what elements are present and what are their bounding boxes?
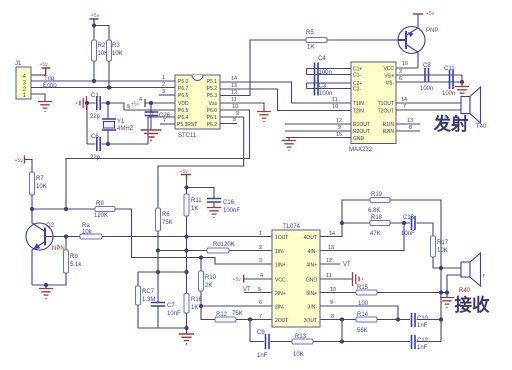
- svg-text:P6.0: P6.0: [207, 108, 218, 114]
- resistor R9: [94, 201, 115, 219]
- svg-text:1nF: 1nF: [257, 353, 268, 359]
- wire R5 to base: [327, 39, 398, 41]
- svg-text:16: 16: [402, 61, 408, 67]
- svg-text:P5.1: P5.1: [207, 79, 218, 85]
- wire pin8 to R14: [320, 319, 356, 321]
- junction Trig/R2: [92, 79, 96, 83]
- svg-text:1IN+: 1IN+: [275, 263, 286, 269]
- junction pin13/C13 wire: [402, 221, 406, 225]
- svg-text:10: 10: [332, 104, 338, 110]
- svg-text:C4: C4: [318, 56, 326, 62]
- svg-text:R3: R3: [112, 43, 120, 49]
- svg-text:8: 8: [409, 125, 412, 131]
- wire C12 net: [342, 341, 410, 343]
- wire TL074 pin2 net: [158, 250, 272, 252]
- power +5v (VDD): [131, 99, 145, 108]
- wire R12 right to pin7: [236, 319, 272, 321]
- junction R7/Q2 collector: [30, 207, 34, 211]
- svg-text:9: 9: [338, 125, 341, 131]
- svg-text:47K: 47K: [370, 231, 381, 237]
- junction pin9/C10 wire: [396, 317, 400, 321]
- resistor R7: [30, 172, 47, 195]
- junction R13 wire/C12 wire: [340, 339, 344, 343]
- svg-text:Q2: Q2: [46, 223, 55, 229]
- wire R13 right riser to pin8: [313, 320, 342, 342]
- svg-text:6.8K: 6.8K: [368, 208, 380, 214]
- svg-text:10K: 10K: [112, 51, 123, 57]
- svg-text:MAX232: MAX232: [349, 147, 373, 153]
- wire emitter/Rb to ground: [32, 273, 66, 288]
- svg-text:9: 9: [330, 300, 333, 306]
- svg-text:3: 3: [162, 89, 165, 95]
- mcu U1 STC11: [175, 75, 220, 139]
- junction bus/pin1 wire: [184, 234, 188, 238]
- resistor R10: [199, 258, 217, 292]
- svg-text:Echo: Echo: [43, 83, 57, 89]
- wire pin3 stub: [159, 94, 175, 96]
- svg-text:22p: 22p: [90, 114, 101, 120]
- resistor R17: [431, 236, 449, 257]
- svg-text:10K: 10K: [293, 352, 304, 358]
- resistor R14: [356, 312, 377, 334]
- svg-text:4: 4: [139, 97, 142, 103]
- svg-text:100n: 100n: [319, 91, 332, 97]
- svg-text:+5v: +5v: [426, 11, 435, 17]
- capacitor C9: [257, 330, 269, 359]
- resistor R2: [92, 40, 109, 61]
- svg-text:Y1: Y1: [117, 119, 125, 125]
- svg-text:4: 4: [260, 273, 263, 279]
- junction bus/pin2 wire: [184, 248, 188, 252]
- svg-text:+5v: +5v: [180, 169, 189, 175]
- resistor R13: [292, 334, 313, 358]
- svg-text:12: 12: [336, 118, 342, 124]
- svg-text:R6: R6: [162, 212, 170, 218]
- wire R19 right / right bus: [390, 200, 441, 342]
- ground (C2): [141, 130, 162, 141]
- power +5v (R11): [180, 169, 192, 180]
- svg-text:+5v: +5v: [40, 62, 49, 68]
- ic U2 MAX232: [349, 62, 396, 153]
- node Trig wire: [31, 76, 175, 82]
- svg-text:GND: GND: [353, 136, 365, 142]
- power +5v (J1 pin4): [40, 62, 51, 75]
- wire C12 right to bus: [417, 341, 442, 343]
- wire R18 left: [342, 222, 370, 224]
- svg-text:P6.6: P6.6: [178, 93, 189, 99]
- svg-text:C7: C7: [167, 303, 175, 309]
- svg-text:8: 8: [233, 117, 236, 123]
- svg-text:Rb: Rb: [70, 254, 78, 260]
- junction pin8/C9 riser: [340, 317, 344, 321]
- svg-text:5.1k: 5.1k: [70, 262, 82, 268]
- svg-text:T2OUT: T2OUT: [378, 109, 394, 115]
- svg-text:11: 11: [231, 97, 237, 103]
- capacitor C11: [442, 66, 455, 97]
- ground (C11): [455, 82, 469, 96]
- wire Ra right to TL074 pin1: [102, 236, 272, 238]
- ground (TL074 GND, sideways right): [353, 272, 363, 286]
- svg-text:VCC: VCC: [275, 278, 286, 284]
- wire R1OUT stub: [285, 123, 351, 125]
- svg-text:VS+: VS+: [384, 74, 394, 80]
- svg-text:1: 1: [259, 231, 262, 237]
- svg-text:100n: 100n: [442, 91, 455, 97]
- wire base node: [66, 236, 80, 238]
- wire R6 bottom: [157, 231, 159, 303]
- svg-text:1IN-: 1IN-: [275, 249, 285, 255]
- svg-text:1: 1: [162, 75, 165, 81]
- svg-text:4IN+: 4IN+: [306, 263, 317, 269]
- wire pin14 riser to R19/R18: [320, 200, 370, 237]
- wire R3 bottom to Echo: [108, 61, 110, 88]
- capacitor C7: [151, 303, 181, 329]
- junction crystal top: [106, 101, 110, 105]
- svg-text:R2IN: R2IN: [383, 129, 395, 135]
- resistor R16: [184, 294, 203, 314]
- wire +5 to R11 and C16: [187, 180, 215, 199]
- junction pin7/C9: [248, 317, 252, 321]
- node VT (pin5): [243, 287, 272, 293]
- resistor R12: [201, 306, 243, 322]
- resistor RC7: [136, 286, 156, 305]
- svg-text:5: 5: [127, 104, 130, 110]
- wire R10 bottom to pin6: [201, 291, 272, 306]
- svg-text:C16: C16: [223, 200, 235, 206]
- svg-text:2: 2: [399, 69, 402, 75]
- svg-text:11: 11: [332, 97, 338, 103]
- svg-text:2: 2: [259, 245, 262, 251]
- svg-text:J1: J1: [15, 61, 22, 67]
- wire pin8 stub: [220, 123, 237, 125]
- wire R7 bottom / collector node: [32, 195, 95, 209]
- power +5v (R7, sideways): [15, 156, 25, 165]
- svg-text:56K: 56K: [357, 328, 368, 334]
- ground (bottom rail): [179, 334, 194, 344]
- svg-text:P6.7: P6.7: [178, 86, 189, 92]
- wire J1 pin1 to ground: [31, 94, 45, 101]
- svg-text:75K: 75K: [232, 311, 243, 317]
- svg-text:P6.1: P6.1: [207, 115, 218, 121]
- svg-text:C6: C6: [91, 134, 99, 140]
- svg-text:14: 14: [401, 97, 407, 103]
- svg-text:1K: 1K: [191, 206, 198, 212]
- resistor Rd: [207, 242, 235, 253]
- svg-text:100n: 100n: [420, 86, 433, 92]
- svg-text:7: 7: [259, 314, 262, 320]
- svg-text:C3: C3: [319, 84, 327, 90]
- svg-text:T40: T40: [476, 124, 487, 130]
- wire pin9 route to R6: [158, 117, 244, 208]
- ground (Vss): [257, 112, 271, 122]
- svg-text:P6.2: P6.2: [207, 122, 218, 128]
- svg-text:发射: 发射: [433, 114, 469, 134]
- wire T1OUT to speaker: [396, 102, 461, 104]
- resistor R3: [107, 40, 123, 61]
- svg-text:T2IN: T2IN: [353, 109, 364, 115]
- svg-text:Rd120K: Rd120K: [213, 242, 235, 248]
- crystal Y1: [102, 103, 134, 144]
- wire T2OUT to speaker: [396, 109, 461, 111]
- svg-text:13: 13: [407, 118, 413, 124]
- svg-text:R1OUT: R1OUT: [353, 122, 370, 128]
- wire R2 bottom to Trig: [93, 61, 95, 81]
- power +5v (TL074 VCC, sideways): [233, 275, 244, 283]
- wire R18 right to C13: [390, 222, 410, 224]
- svg-text:VCC: VCC: [383, 66, 394, 72]
- wire pin11 GND stub: [320, 278, 352, 280]
- capacitor C1: [90, 93, 101, 120]
- svg-text:接收: 接收: [455, 295, 490, 315]
- junction speaker gnd: [445, 290, 449, 294]
- svg-text:+5v: +5v: [15, 158, 24, 164]
- svg-text:VS-: VS-: [386, 81, 395, 87]
- svg-text:12: 12: [326, 258, 332, 264]
- svg-text:R5: R5: [306, 30, 314, 36]
- svg-text:PNP: PNP: [426, 28, 438, 34]
- svg-text:2IN+: 2IN+: [275, 291, 286, 297]
- wire bottom ground rail: [138, 305, 187, 334]
- wire pin12 up to R5: [220, 40, 306, 96]
- resistor Ra: [80, 223, 102, 239]
- power +5v (PNP emitter): [413, 11, 435, 17]
- junction ground stem: [44, 283, 48, 287]
- svg-text:r: r: [483, 273, 485, 279]
- capacitor C4: [307, 56, 352, 81]
- svg-text:C1-: C1-: [353, 73, 361, 79]
- ground (crystal, sideways left): [77, 96, 87, 110]
- svg-text:Ra: Ra: [82, 223, 90, 229]
- wire VCC pin4: [244, 278, 272, 280]
- resistor R18: [370, 215, 390, 237]
- speaker R40 (receive): [459, 253, 485, 294]
- wire R9 right to TL074 pin3: [115, 209, 272, 264]
- capacitor C6: [90, 134, 101, 161]
- svg-text:+5v: +5v: [91, 13, 100, 19]
- wire RC7/C7 node: [138, 272, 187, 286]
- svg-text:6: 6: [150, 111, 153, 117]
- wire pin11 Vss to ground: [220, 103, 264, 111]
- wire crystal left riser: [86, 103, 88, 144]
- svg-text:R11: R11: [191, 198, 202, 204]
- svg-text:P6.4: P6.4: [178, 115, 189, 121]
- svg-text:120K: 120K: [94, 213, 108, 219]
- transistor Q1 PNP: [398, 14, 425, 68]
- svg-text:P6.5: P6.5: [178, 108, 189, 114]
- svg-text:T1IN: T1IN: [353, 101, 364, 107]
- svg-text:NPN: NPN: [52, 246, 65, 252]
- junction right bus / speaker top: [439, 266, 443, 270]
- svg-text:1K: 1K: [307, 45, 314, 51]
- svg-text:3IN-: 3IN-: [308, 305, 318, 311]
- svg-text:R2OUT: R2OUT: [353, 129, 370, 135]
- svg-text:100nF: 100nF: [223, 208, 240, 214]
- svg-text:13: 13: [231, 83, 237, 89]
- node Echo wire: [31, 83, 175, 89]
- junction bus/C10: [439, 317, 443, 321]
- svg-text:2OUT: 2OUT: [275, 318, 288, 324]
- junction C16 branch: [184, 185, 188, 189]
- svg-text:7: 7: [403, 104, 406, 110]
- svg-text:1nF: 1nF: [417, 323, 428, 329]
- svg-text:9: 9: [236, 111, 239, 117]
- svg-text:1OUT: 1OUT: [275, 235, 288, 241]
- junction R10 top: [199, 255, 203, 259]
- resistor R19: [368, 192, 390, 214]
- resistor Rb: [64, 237, 83, 274]
- junction pin10 riser: [64, 207, 68, 211]
- svg-text:4MHZ: 4MHZ: [117, 126, 134, 132]
- capacitor C10: [412, 313, 429, 329]
- wire speaker bottom to ground: [447, 275, 461, 297]
- svg-text:10nF: 10nF: [167, 311, 181, 317]
- svg-text:C13: C13: [403, 215, 415, 221]
- capacitor C13: [401, 215, 415, 237]
- wire pin13 riser: [320, 223, 404, 251]
- capacitor C8: [420, 63, 433, 92]
- svg-text:3OUT: 3OUT: [304, 318, 317, 324]
- svg-text:2K: 2K: [205, 283, 212, 289]
- svg-text:2IN-: 2IN-: [275, 305, 285, 311]
- wire collector to MAX232 VCC: [396, 67, 418, 69]
- svg-text:10: 10: [232, 104, 238, 110]
- junction ground rail: [184, 326, 188, 330]
- junction bus/RC7 wire: [184, 270, 188, 274]
- svg-text:RC7: RC7: [142, 289, 155, 295]
- capacitor C3: [307, 80, 352, 97]
- svg-text:C9: C9: [257, 330, 265, 336]
- ground (C16): [207, 208, 221, 218]
- svg-text:P5.0: P5.0: [178, 79, 189, 85]
- capacitor C2 (VDD decoupling): [145, 103, 171, 130]
- svg-text:1K: 1K: [191, 305, 198, 311]
- svg-text:T1OUT: T1OUT: [378, 101, 394, 107]
- wire C10 right to bus: [417, 319, 442, 321]
- wire pin13 to T2IN: [220, 89, 351, 111]
- ground (MAX232 GND): [282, 141, 296, 151]
- wire RST pin7 stub: [160, 123, 175, 125]
- svg-text:GND: GND: [306, 278, 318, 284]
- svg-text:TL074: TL074: [283, 224, 301, 230]
- capacitor C16: [207, 199, 240, 215]
- wire R1IN stub: [396, 123, 420, 125]
- junction R10/R12: [199, 304, 203, 308]
- junction C1 left: [85, 101, 89, 105]
- opamp U3 TL074: [272, 224, 320, 327]
- svg-text:3IN+: 3IN+: [306, 291, 317, 297]
- wire R2/R3 top tee: [94, 26, 109, 41]
- svg-text:10K: 10K: [36, 184, 47, 190]
- resistor R5: [306, 30, 327, 51]
- svg-text:1nF: 1nF: [417, 345, 428, 351]
- junction C2 top on VDD wire: [149, 101, 153, 105]
- connector J1: [15, 61, 31, 99]
- svg-text:14: 14: [231, 76, 237, 82]
- junction base/Rb: [64, 234, 68, 238]
- wire pin10 to R15: [320, 292, 356, 294]
- junction crystal bottom: [106, 142, 110, 146]
- wire R14 right to C10: [377, 319, 410, 321]
- svg-text:P5.3: P5.3: [207, 93, 218, 99]
- resistor R6: [156, 208, 173, 231]
- junction VS caps: [460, 80, 464, 84]
- wire J1 pin4: [31, 74, 46, 76]
- wire C13 right to R17: [417, 223, 434, 236]
- svg-text:6: 6: [399, 76, 402, 82]
- wire VDD pin4: [145, 102, 175, 104]
- junction Echo/R3: [107, 85, 111, 89]
- wire crystal top (to pin5): [87, 103, 175, 110]
- svg-text:C2-: C2-: [353, 87, 361, 93]
- svg-text:R10: R10: [205, 275, 217, 281]
- svg-text:R40: R40: [459, 288, 471, 294]
- svg-text:10nF: 10nF: [401, 231, 415, 237]
- svg-text:R1IN: R1IN: [383, 122, 395, 128]
- svg-text:STC11: STC11: [178, 133, 197, 139]
- svg-text:Vss: Vss: [209, 101, 218, 107]
- svg-text:P5.2: P5.2: [207, 86, 218, 92]
- svg-text:3: 3: [259, 258, 262, 264]
- svg-text:C1: C1: [91, 93, 99, 99]
- wire R15 right to ground node: [377, 292, 447, 294]
- svg-text:11: 11: [326, 273, 332, 279]
- wire GND stub: [286, 138, 351, 141]
- svg-text:P5.3RST: P5.3RST: [177, 122, 197, 128]
- wire +5 to R7: [25, 160, 32, 173]
- svg-text:VDD: VDD: [178, 101, 189, 107]
- transistor Q2 NPN: [26, 209, 66, 285]
- svg-text:4OUT: 4OUT: [304, 235, 317, 241]
- junction right bus / R15 wire: [439, 290, 443, 294]
- speaker T40 (transmit): [461, 87, 487, 130]
- ground (J1): [38, 102, 52, 112]
- wire R2IN stub: [396, 130, 420, 132]
- resistor R15: [356, 285, 377, 307]
- wire pin9 riser: [320, 306, 398, 320]
- wire R17 bottom to speaker: [433, 257, 461, 268]
- junction R6/pin2 wire: [156, 248, 160, 252]
- power +5v (R2/R3 pullup): [90, 13, 100, 26]
- svg-text:R17: R17: [437, 240, 449, 246]
- wire VS+: [396, 74, 462, 76]
- ground (receiver): [440, 298, 454, 308]
- svg-text:4IN-: 4IN-: [308, 249, 318, 255]
- wire VS-: [396, 75, 462, 82]
- wire R11 bottom bus: [186, 216, 188, 294]
- wire pin10 route to R7/R9 node: [66, 110, 250, 209]
- ground (Q2 emitter): [39, 289, 53, 299]
- junction R6/C7 node: [156, 270, 160, 274]
- resistor R11: [184, 194, 202, 216]
- wire R2OUT stub: [285, 130, 351, 132]
- svg-text:R2: R2: [98, 43, 106, 49]
- junction riser/R18 wire: [340, 221, 344, 225]
- wire crystal bottom (to pin6): [87, 117, 175, 144]
- svg-text:6: 6: [259, 300, 262, 306]
- svg-text:2: 2: [162, 82, 165, 88]
- svg-text:75K: 75K: [162, 220, 173, 226]
- svg-text:R7: R7: [36, 176, 44, 182]
- wire pin14 to T1IN: [220, 82, 351, 103]
- wire C9/R13 feedback: [250, 320, 292, 342]
- svg-text:100n: 100n: [319, 70, 332, 76]
- node VT (pin12): [320, 262, 351, 268]
- svg-text:VT: VT: [343, 262, 351, 268]
- capacitor C12: [412, 335, 429, 351]
- svg-text:+5v: +5v: [233, 277, 242, 283]
- svg-text:7: 7: [163, 118, 166, 124]
- svg-text:10K: 10K: [437, 248, 448, 254]
